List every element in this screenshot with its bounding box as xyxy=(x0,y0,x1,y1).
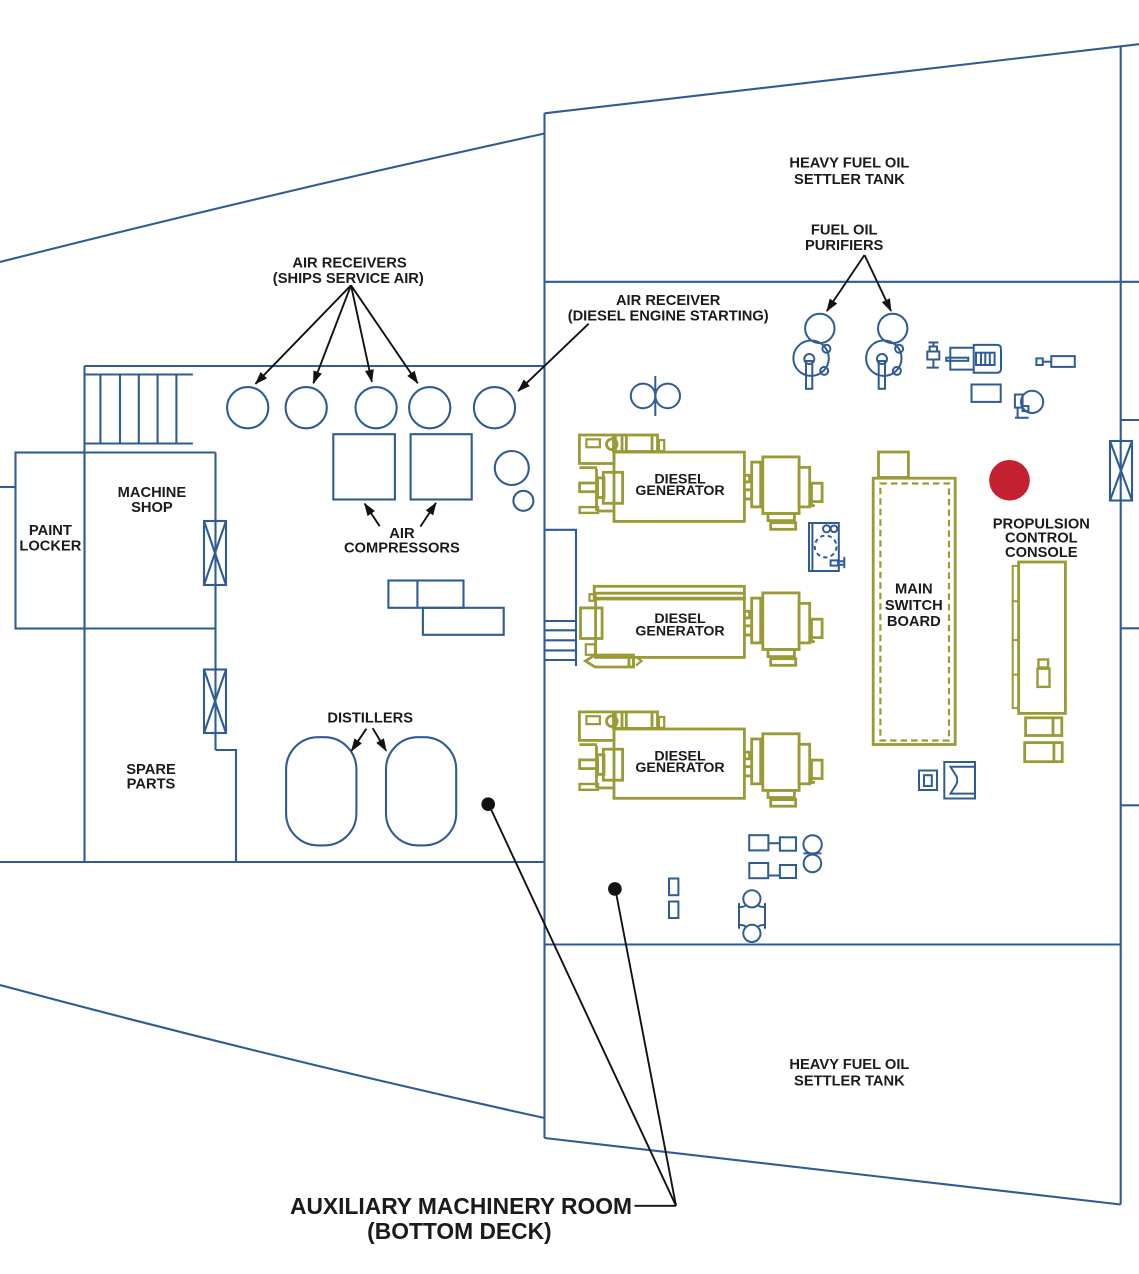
diesel generator unit 1 xyxy=(579,435,744,521)
wire: right room bottom wall y=944.5 xyxy=(545,943,1121,945)
bolt fitting xyxy=(927,343,940,368)
plain box unit xyxy=(972,385,1001,402)
wire: right vertical bulkhead x=1120.7 xyxy=(1120,46,1122,1205)
plug and box fitting xyxy=(1036,356,1074,367)
svg-text:(SHIPS SERVICE AIR): (SHIPS SERVICE AIR) xyxy=(273,271,424,287)
wire: left room top wall y=366 xyxy=(85,365,545,367)
air receiver tank 1 xyxy=(227,387,268,428)
svg-text:AUXILIARY MACHINERY ROOM: AUXILIARY MACHINERY ROOM xyxy=(290,1193,632,1219)
valve V2 on spare parts wall xyxy=(204,670,226,734)
wire: settler tank bottom wall y=281.8 xyxy=(545,281,1139,283)
pump with dashed impeller circle xyxy=(809,523,844,571)
square pair fitting row 2 xyxy=(749,863,796,878)
svg-text:AIR RECEIVERS: AIR RECEIVERS xyxy=(292,256,406,272)
leader tail to title xyxy=(635,1205,677,1207)
arrow to distiller 1 xyxy=(352,729,367,751)
distiller 1 xyxy=(286,737,356,845)
svg-text:HEAVY FUEL OIL: HEAVY FUEL OIL xyxy=(789,1057,909,1073)
svg-text:AIR: AIR xyxy=(389,526,415,542)
stair landing right of center bulkhead xyxy=(545,530,577,666)
svg-text:COMPRESSORS: COMPRESSORS xyxy=(344,541,460,557)
leader line 1 xyxy=(489,805,676,1206)
tank circle large xyxy=(495,451,529,485)
wire: right edge tick y=628.3 xyxy=(1121,627,1139,629)
wire: paint locker door stub xyxy=(0,486,16,488)
svg-text:AIR RECEIVER: AIR RECEIVER xyxy=(616,293,721,309)
propulsion control console xyxy=(1013,562,1066,762)
wire: right edge tick y=805.3 xyxy=(1121,804,1139,806)
diesel generator unit 3 xyxy=(579,712,744,798)
small square-in-square unit xyxy=(919,771,937,791)
tank circle small xyxy=(513,491,533,511)
diesel generator unit 2 xyxy=(581,586,745,667)
svg-text:PARTS: PARTS xyxy=(127,777,176,793)
svg-text:SETTLER TANK: SETTLER TANK xyxy=(794,1074,905,1090)
fuel oil purifier 1 xyxy=(793,314,834,389)
air compressor 2 xyxy=(411,434,472,499)
BLUEPARTS xyxy=(227,387,533,845)
svg-text:GENERATOR: GENERATOR xyxy=(635,483,724,499)
svg-text:FUEL OIL: FUEL OIL xyxy=(811,223,878,239)
svg-text:MACHINE: MACHINE xyxy=(118,485,187,501)
ladder rungs xyxy=(100,375,176,444)
step platform lower xyxy=(423,608,504,635)
arrow to purifier 2 xyxy=(865,255,892,311)
leader dot 2 xyxy=(608,882,622,896)
wire: right edge tick y=420 xyxy=(1121,419,1139,421)
wire: center vertical bulkhead x=544.5 xyxy=(543,113,545,1138)
square pair fitting row 1 xyxy=(749,835,796,851)
svg-text:SWITCH: SWITCH xyxy=(885,598,943,614)
distiller 2 xyxy=(386,737,456,845)
paint locker room xyxy=(16,453,85,629)
arrow to distiller 2 xyxy=(373,728,387,751)
small rect fitting A xyxy=(669,879,678,896)
arrow to compressor 2 xyxy=(420,503,436,527)
svg-text:MAIN: MAIN xyxy=(895,582,933,598)
svg-text:SPARE: SPARE xyxy=(126,762,176,778)
hull bottom-right line xyxy=(545,1138,1121,1205)
stair rungs xyxy=(545,630,577,660)
arrow to air receiver 2 xyxy=(313,285,351,383)
small pump unit xyxy=(1015,391,1043,418)
svg-text:GENERATOR: GENERATOR xyxy=(635,760,724,776)
valve V3 on right bulkhead xyxy=(1110,441,1132,501)
air receiver tank 4 xyxy=(409,387,450,428)
flashlight-shaped unit xyxy=(946,345,1001,373)
wire: left interior wall x=84.5 xyxy=(83,366,85,862)
valve V1 on machine shop wall xyxy=(204,521,226,585)
svg-text:GENERATOR: GENERATOR xyxy=(635,623,724,639)
air receiver tank 5 (diesel engine starting) xyxy=(474,387,515,428)
wire: machine shop right wall segments x=215.5 xyxy=(214,453,216,751)
air receiver tank 2 xyxy=(286,387,327,428)
air receiver tank 3 xyxy=(356,387,397,428)
stacked circles fitting xyxy=(803,835,821,872)
BLACKPARTS xyxy=(256,255,892,1206)
fuel oil purifier 2 xyxy=(866,314,907,389)
air compressor 1 xyxy=(333,434,395,499)
arrow to air receiver 3 xyxy=(351,285,372,382)
leader dot 1 xyxy=(481,797,495,811)
svg-text:HEAVY FUEL OIL: HEAVY FUEL OIL xyxy=(789,156,909,172)
svg-text:(BOTTOM DECK): (BOTTOM DECK) xyxy=(367,1218,551,1244)
svg-text:PAINT: PAINT xyxy=(29,523,72,539)
svg-text:SETTLER TANK: SETTLER TANK xyxy=(794,172,905,188)
machine shop room walls xyxy=(85,453,216,629)
svg-text:CONSOLE: CONSOLE xyxy=(1005,545,1078,561)
hull top-right sheer line xyxy=(545,44,1139,113)
ladder top-left rails xyxy=(86,375,193,444)
svg-text:BOARD: BOARD xyxy=(887,614,941,630)
svg-text:(DIESEL ENGINE STARTING): (DIESEL ENGINE STARTING) xyxy=(568,309,769,325)
svg-text:DISTILLERS: DISTILLERS xyxy=(327,711,413,727)
arrow to air receiver 5 xyxy=(518,324,589,391)
red indicator dot xyxy=(989,460,1030,501)
horn bracket unit xyxy=(944,762,975,799)
double-fan unit near center bulkhead xyxy=(631,384,656,409)
svg-text:SHOP: SHOP xyxy=(131,500,173,516)
wire: left room bottom wall y=862 xyxy=(0,861,545,863)
svg-text:LOCKER: LOCKER xyxy=(19,538,81,554)
title: auxiliary machinery room (bottom deck) xyxy=(290,1193,632,1244)
hourglass coupling xyxy=(739,890,765,942)
main switch board xyxy=(873,452,955,745)
hull top-left sheer line xyxy=(0,134,545,263)
arrow to air receiver 1 xyxy=(256,285,352,384)
arrow to air receiver 4 xyxy=(351,285,418,383)
svg-text:PURIFIERS: PURIFIERS xyxy=(805,238,884,254)
hull bottom-left line xyxy=(0,985,545,1118)
arrow to purifier 1 xyxy=(827,255,865,311)
wire: spare parts right wall jog xyxy=(216,750,237,862)
small rect fitting B xyxy=(669,902,678,919)
arrow to compressor 1 xyxy=(365,504,380,527)
leader line 2 xyxy=(616,890,677,1206)
step platform upper xyxy=(388,581,463,608)
